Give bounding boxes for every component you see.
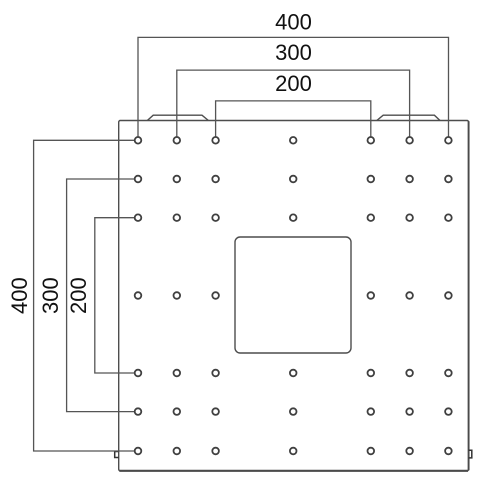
plate bottom edge heavy <box>119 470 468 472</box>
dimension bracket left 400 <box>34 140 138 451</box>
top tab right <box>377 115 440 120</box>
hole row 3 <box>135 214 452 221</box>
plate right edge heavy <box>468 121 470 470</box>
hole row 7 <box>135 448 452 455</box>
dimension bracket top 400 <box>138 37 449 140</box>
dimension bracket left 300 <box>67 179 138 412</box>
hole row 5 <box>135 370 452 377</box>
hole row 2 <box>135 176 452 183</box>
svg-text:300: 300 <box>38 277 63 314</box>
svg-text:200: 200 <box>66 277 91 314</box>
mounting plate outline <box>119 121 469 471</box>
side tab right <box>469 450 472 458</box>
svg-text:400: 400 <box>275 10 312 35</box>
svg-text:200: 200 <box>275 71 312 96</box>
dimension bracket top 300 <box>177 70 410 140</box>
svg-text:300: 300 <box>275 40 312 65</box>
dimension bracket top 200 <box>216 101 371 140</box>
svg-text:400: 400 <box>7 277 32 314</box>
hole row 6 <box>135 408 452 415</box>
dimension bracket left 200 <box>95 218 138 373</box>
hole row 4 middle <box>135 292 452 299</box>
center square cutout <box>235 237 351 353</box>
side tab left <box>115 452 119 458</box>
top tab left <box>147 115 208 120</box>
hole row 1 <box>135 137 452 144</box>
